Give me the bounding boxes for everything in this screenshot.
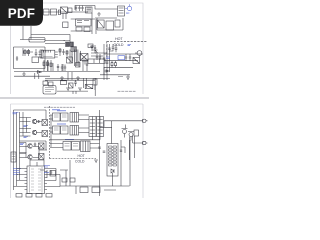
channel1 transformer T11	[70, 113, 79, 123]
channel2 label blue	[57, 123, 66, 125]
wire IC left connections	[14, 169, 25, 187]
transistor Q5	[93, 79, 97, 85]
cap C31	[34, 143, 36, 147]
wire right bus page2	[100, 110, 112, 196]
cap C41	[98, 147, 101, 148]
wire rectifier output	[71, 13, 96, 34]
IC U20 pins left	[25, 169, 28, 190]
wire top-left drops from input	[20, 26, 70, 43]
ground GND1	[126, 77, 130, 79]
cap C10	[69, 50, 71, 64]
wire lower-left page1	[14, 73, 50, 79]
output connector CN2	[137, 51, 142, 56]
connector CN3	[43, 86, 56, 95]
main transformer T1 core	[75, 50, 78, 67]
primary snubber coil T1b	[70, 42, 74, 47]
cap C50	[50, 170, 52, 175]
ground GND5	[78, 88, 82, 90]
svg-text:PDF: PDF	[8, 6, 35, 21]
ground chassis top	[97, 12, 101, 16]
cap C23	[109, 44, 114, 51]
title text page1	[118, 90, 136, 92]
diode D20	[111, 169, 114, 176]
cap C40	[120, 150, 122, 151]
wire rows 3-4 joint	[20, 141, 48, 158]
switch SW1	[118, 6, 125, 16]
opto coupler PC1	[67, 57, 73, 63]
bottom components row	[16, 194, 22, 198]
wire tail page1	[57, 84, 95, 94]
cap CX3	[106, 21, 114, 30]
wire drive row3	[20, 143, 40, 147]
side connector CN20	[11, 152, 16, 162]
PDF badge	[0, 0, 43, 26]
balance transformer T10b	[42, 131, 48, 137]
connector CN11	[143, 141, 146, 144]
svg-text:COLD: COLD	[114, 43, 124, 47]
cap C15b	[16, 56, 18, 61]
mosfet Q21	[129, 133, 133, 137]
wire left feedback loop	[14, 47, 46, 69]
resistor ladder RA1	[109, 146, 117, 166]
wire primary ground bus	[14, 71, 100, 73]
hot-cold dashed boundary page2	[50, 106, 97, 160]
primary winding hatch	[71, 47, 77, 52]
resistor R16	[66, 50, 68, 56]
cap C14	[62, 49, 64, 55]
wire riser to bus	[75, 6, 118, 11]
wire lower-mid page1	[45, 72, 110, 96]
T1 secondary winding	[79, 51, 82, 61]
snubber resistor R13	[88, 44, 93, 48]
transistor Q13	[28, 155, 32, 159]
cap C24	[115, 44, 118, 52]
label blue mid2	[44, 172, 49, 174]
transistor Q12	[28, 144, 32, 148]
balance transformer T10	[42, 120, 48, 126]
wire main switching bus	[45, 41, 65, 44]
wire AC line top	[43, 11, 88, 13]
balance transformer T10d	[39, 154, 45, 160]
PWM controller U1	[42, 50, 55, 58]
channel2 ballast caps	[53, 126, 61, 134]
fuse F1	[44, 9, 50, 15]
cap bank C20	[103, 58, 106, 59]
rail resistor R22	[111, 61, 113, 68]
label blue mid1	[44, 166, 50, 168]
label xx	[118, 76, 123, 78]
channel3 label blue	[65, 139, 74, 141]
cap bank C21	[106, 62, 109, 63]
cap C22	[108, 48, 111, 49]
wire mid-bottom page2	[40, 160, 100, 186]
AC inlet connector P1	[125, 4, 131, 10]
ground GND6	[22, 72, 26, 76]
resistor R11	[47, 60, 49, 71]
gate resistor R14	[79, 59, 88, 68]
wire lower output	[100, 75, 130, 77]
cap C12	[64, 65, 66, 72]
page 2 frame border	[11, 104, 144, 198]
snubber diode D2	[91, 45, 94, 51]
wire right column	[121, 140, 125, 186]
transistor Q10	[32, 119, 36, 123]
balance transformer T10c	[39, 143, 45, 149]
standby transformer label box	[29, 38, 45, 43]
wire IC top	[30, 160, 44, 166]
rail resistor R23	[115, 61, 117, 68]
label blue b3	[20, 144, 24, 145]
IC pin numbers	[31, 169, 41, 190]
wire row joints	[20, 118, 31, 137]
wire bridge input	[63, 13, 95, 19]
diode D12	[133, 58, 140, 64]
HV transformer T21	[97, 117, 104, 137]
ground GND3	[76, 76, 80, 80]
rail cap C28	[125, 54, 127, 61]
zener ZD2	[37, 71, 43, 74]
filter cap CX2	[68, 8, 72, 13]
label blue b1	[24, 126, 29, 127]
cap C30	[38, 120, 40, 123]
cap C5	[76, 27, 82, 31]
rail cap C29	[129, 54, 131, 61]
cap CY2	[78, 6, 80, 12]
wire mid bottom hanging parts	[48, 58, 87, 71]
cap CY3	[81, 6, 83, 12]
resistor R6	[27, 49, 29, 56]
IC U20 pins right	[45, 169, 48, 190]
thermistor TH1	[63, 22, 68, 28]
ground GND2	[60, 76, 64, 80]
page separator line	[0, 97, 149, 99]
wire secondary rails	[91, 44, 110, 80]
wire cluster drops	[130, 136, 135, 186]
choke L2	[115, 20, 120, 27]
wire inner left	[23, 48, 33, 56]
svg-text:AC: AC	[126, 12, 130, 15]
IC U20	[27, 166, 45, 194]
common-mode choke LF1	[58, 10, 61, 15]
svg-text:COLD: COLD	[75, 160, 85, 164]
header blue text page2	[52, 109, 60, 111]
channel1 ballast caps	[53, 113, 61, 121]
label T1 text	[64, 39, 71, 41]
wire drive row4	[20, 154, 40, 158]
bottom row mid page2	[80, 187, 88, 193]
relay box K2	[69, 83, 73, 88]
header text page2	[44, 106, 75, 108]
MOSFET Q1	[80, 54, 88, 61]
resistor R31	[70, 178, 75, 182]
wire drive row1	[20, 118, 43, 122]
resistor R10	[43, 60, 45, 71]
wire channel bus	[50, 115, 100, 147]
resistor R5	[24, 49, 26, 56]
wire bottom right page2	[100, 176, 130, 186]
resistor R7	[40, 50, 43, 58]
hot-cold boundary vertical dash	[106, 41, 108, 58]
cap C11	[61, 64, 63, 71]
resistor R15	[59, 48, 61, 56]
page 1 frame border	[11, 3, 144, 94]
cap C15	[35, 49, 38, 56]
cap CY1	[75, 6, 77, 12]
wire IC right connections	[47, 169, 60, 187]
regulator U3	[32, 57, 39, 63]
channel3 transformer T13	[81, 141, 91, 152]
driver box U11	[134, 130, 139, 136]
channel2 transformer T12	[70, 126, 79, 136]
blue node mark	[128, 45, 132, 46]
ground GND4	[66, 88, 70, 90]
reset IC U21	[50, 171, 56, 177]
transistor Q11	[32, 130, 36, 134]
feedback box U10	[107, 144, 118, 177]
resistor R30	[62, 178, 67, 182]
wire left bus page2	[14, 110, 24, 190]
wire drive row2	[20, 129, 43, 133]
output choke L3	[88, 59, 105, 63]
primary snubber coil T1a	[66, 42, 70, 47]
cap C42	[103, 151, 106, 152]
resistor R12	[50, 60, 52, 71]
label blue b2	[24, 137, 29, 138]
wire channel1 out	[50, 115, 89, 120]
channel1 label blue	[57, 110, 66, 112]
wire channel3 out	[50, 144, 100, 149]
HV transformer T20	[89, 117, 96, 137]
label blue b0	[13, 113, 19, 114]
rectifier D10	[93, 50, 98, 53]
wire AC inlet bus	[95, 18, 123, 30]
mosfet Q20	[123, 130, 127, 134]
rail cap C27	[99, 54, 101, 60]
wire top rail page2	[14, 110, 47, 120]
label blue left	[106, 57, 110, 59]
cap C25	[74, 80, 77, 86]
T1 primary winding	[71, 51, 74, 61]
damper box D6	[76, 63, 81, 68]
cap C18	[86, 64, 88, 65]
resistor R20	[60, 81, 66, 85]
line filter box LF2	[61, 7, 68, 13]
snubber cap C13	[94, 45, 96, 51]
wire feed to connectors	[100, 121, 142, 143]
cap C16	[47, 64, 49, 65]
cap C6	[84, 27, 90, 32]
varistor ZNR1	[98, 20, 105, 28]
svg-text:HOT: HOT	[115, 37, 123, 41]
connector CN10	[143, 119, 146, 122]
label VCC blue	[118, 56, 125, 60]
svg-text:HOT: HOT	[78, 154, 85, 158]
aux diode D7	[43, 81, 48, 85]
channel3 ballast caps	[63, 142, 71, 151]
bridge rectifier BD1	[76, 19, 92, 26]
cap C17	[57, 67, 59, 68]
diode D13	[104, 67, 110, 75]
relay RL1	[86, 7, 93, 13]
label blue U20	[13, 169, 21, 175]
ground GND10	[94, 160, 98, 162]
aux diode D8	[49, 82, 54, 86]
hot-cold boundary dash line page1	[107, 40, 147, 42]
filter cap CX1	[51, 9, 57, 15]
wire output rails	[104, 54, 143, 67]
rail cap C26	[96, 54, 98, 60]
diode box D5	[85, 85, 93, 89]
wire channel2 out	[50, 128, 89, 133]
